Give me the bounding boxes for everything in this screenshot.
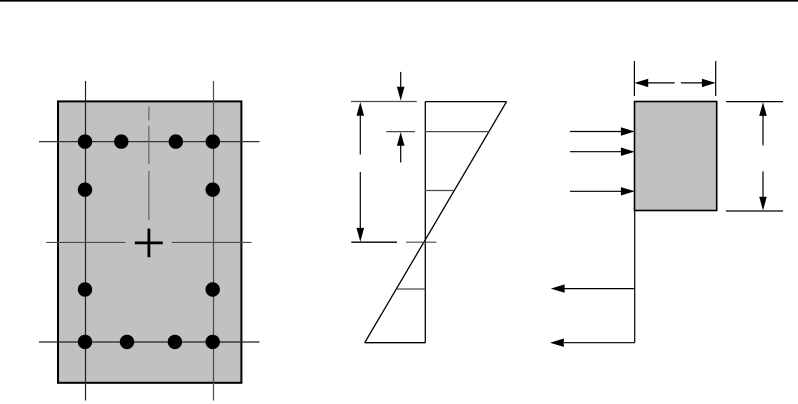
height dim line lower <box>762 171 764 198</box>
depth dimension line upper <box>359 114 361 155</box>
bottom rebar row line <box>39 341 260 343</box>
height dim line upper <box>762 114 764 145</box>
compression arrow 1 stem <box>570 131 622 133</box>
strain tick level 3 <box>397 288 426 290</box>
strain diagram axis <box>424 102 426 343</box>
rebar dot M2 <box>206 183 220 197</box>
compression arrow 1 head <box>621 127 635 135</box>
height dim top extension <box>726 101 783 103</box>
width dim arrowhead left <box>634 79 648 87</box>
strain tick level 1 <box>425 131 490 133</box>
compression arrow 3 head <box>621 187 635 195</box>
horizontal centerline left dash <box>46 241 125 243</box>
page top rule <box>0 0 798 2</box>
rebar dot T3 <box>169 134 183 148</box>
cover dim up arrow stem <box>400 145 402 163</box>
height dim arrowhead down <box>759 197 767 211</box>
compression arrow 2 stem <box>570 151 622 153</box>
center cross <box>135 229 163 258</box>
rebar dot B1 <box>78 335 92 349</box>
rebar dot B3 <box>168 335 182 349</box>
rebar dot T4 <box>206 134 220 148</box>
tension arrow 2 head <box>550 339 564 347</box>
neutral extension line <box>351 241 397 243</box>
level1 extension line <box>386 131 415 133</box>
height dim arrowhead up <box>759 102 767 116</box>
vertical centerline long dash upper <box>148 126 150 164</box>
tension chord line <box>634 211 636 343</box>
neutral axis tick <box>406 241 437 243</box>
rebar dot T1 <box>78 134 92 148</box>
compression arrow 3 stem <box>570 190 622 192</box>
depth dim arrowhead down <box>357 228 365 242</box>
cover dim up arrowhead <box>397 132 405 146</box>
height dim bottom extension <box>726 210 783 212</box>
compression arrow 2 head <box>621 148 635 156</box>
strain diagram bottom edge <box>365 342 426 344</box>
rebar dot B2 <box>120 335 134 349</box>
width dim line left <box>646 82 675 84</box>
tension arrow 2 stem <box>564 342 635 344</box>
horizontal centerline right dash <box>172 241 252 243</box>
width dim line right <box>681 82 704 84</box>
width dim left extension <box>633 61 635 96</box>
top rebar row line <box>39 141 260 143</box>
strain tick level 2 <box>425 190 454 192</box>
strain diagram top edge <box>425 101 506 103</box>
vertical centerline long dash lower <box>148 171 150 220</box>
top extension line <box>351 101 417 103</box>
strain diagonal <box>365 102 507 343</box>
rebar dot M3 <box>78 282 92 296</box>
rebar dot B4 <box>206 335 220 349</box>
rebar dot T2 <box>114 134 128 148</box>
concrete column section <box>58 101 241 382</box>
vertical centerline top dash <box>148 107 150 121</box>
tension arrow 1 head <box>551 284 565 292</box>
tension arrow 1 stem <box>564 288 635 290</box>
stress block <box>635 102 717 211</box>
depth dimension line lower <box>359 172 361 230</box>
rebar dot M1 <box>78 183 92 197</box>
rebar dot M4 <box>206 282 220 296</box>
depth dim arrowhead up <box>357 102 365 116</box>
cover dim down arrow stem <box>400 72 402 88</box>
width dim right extension <box>715 61 717 96</box>
right rebar construction line <box>213 81 215 401</box>
width dim arrowhead right <box>702 79 716 87</box>
cover dim down arrowhead <box>397 87 405 101</box>
left rebar construction line <box>85 81 87 401</box>
